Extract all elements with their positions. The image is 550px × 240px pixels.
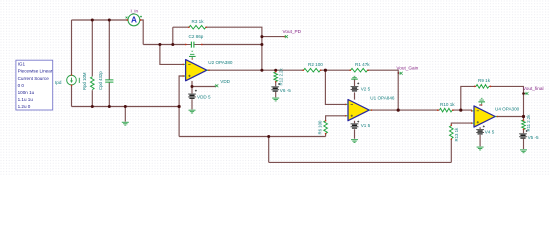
resistor R11 2.2k — [522, 119, 526, 130]
svg-text:Vout_final: Vout_final — [523, 86, 544, 91]
wire R3 right to feedback vertical — [206, 27, 262, 70]
wire V6 to ground — [275, 92, 277, 98]
svg-text:R2 100: R2 100 — [308, 62, 323, 67]
wire Ipd top — [71, 20, 73, 75]
svg-text:IG1: IG1 — [18, 62, 26, 67]
wire R13 bottom — [450, 139, 452, 162]
battery V5 -5 — [519, 130, 528, 139]
wire ammeter to corner — [140, 20, 143, 45]
svg-text:U2 OPA380: U2 OPA380 — [208, 60, 233, 65]
wire Rpd bottom — [91, 90, 93, 106]
resistor R13 1k — [450, 124, 454, 140]
wire C2 right lead — [202, 44, 262, 46]
wire bottom rail photodiode — [72, 106, 180, 108]
resistor R6 100 — [324, 120, 328, 134]
svg-text:R1 47k: R1 47k — [355, 62, 370, 67]
svg-text:R6 100: R6 100 — [317, 120, 322, 134]
wire VDD battery top — [191, 88, 193, 93]
resistor R2 — [302, 68, 321, 72]
wire U4 V+ pin — [479, 104, 481, 106]
ground below V6 — [272, 98, 279, 102]
wire VDD battery to ground — [191, 99, 193, 109]
wire U1 V- pin chain — [354, 121, 356, 139]
wire U4 V- pin chain — [479, 127, 481, 146]
junction dots stage2 — [267, 69, 400, 138]
resistor R9 — [474, 85, 491, 89]
wire Cpd bottom — [108, 82, 110, 106]
wire U4 output — [495, 116, 524, 118]
wire R6 bottom — [325, 134, 327, 137]
svg-text:R13 1k: R13 1k — [454, 127, 459, 141]
resistor R3 — [188, 25, 207, 29]
wire Ipd bottom — [71, 85, 73, 106]
battery V4 5 — [476, 125, 485, 134]
ground below V5 — [520, 149, 527, 153]
wire U2 supply pin down — [191, 81, 193, 87]
resistor Rpd — [91, 77, 95, 90]
battery V2 5 — [351, 82, 360, 91]
net terminal Vout_Gain — [398, 72, 400, 74]
resistor R12 2.2k — [274, 71, 278, 83]
svg-text:V1 5: V1 5 — [361, 123, 371, 128]
svg-text:0 0: 0 0 — [18, 83, 25, 88]
wire Vout_final stub — [524, 93, 526, 95]
wire U1 V+ pin chain — [354, 79, 356, 99]
svg-text:Rpd 10M: Rpd 10M — [82, 72, 87, 90]
wire R9 right to output corner — [490, 86, 523, 116]
wire Rpd top — [91, 20, 93, 76]
wire R13 top to U4 plus input — [451, 123, 472, 125]
svg-text:Piecewise Linear: Piecewise Linear — [18, 69, 53, 74]
svg-text:V2 5: V2 5 — [361, 87, 371, 92]
net terminal VDD — [215, 84, 219, 87]
ground below V1 — [351, 139, 358, 143]
wire inv vertical stage3 — [461, 86, 475, 110]
ground below V4 — [477, 147, 484, 151]
svg-text:VDD: VDD — [220, 79, 230, 84]
inverted ground above U4 — [478, 98, 485, 106]
svg-text:I_in: I_in — [131, 9, 139, 14]
wire R10 right to U4 — [453, 109, 472, 111]
op-amp U1 OPA846 — [345, 100, 371, 121]
net terminal Vout_final — [522, 92, 525, 95]
wire bottom ground rail — [269, 161, 452, 163]
wire R12 stub — [275, 70, 277, 71]
ground photodiode — [122, 122, 129, 126]
wire V5 to ground — [523, 139, 525, 149]
svg-text:U1 OPA846: U1 OPA846 — [370, 95, 395, 100]
wire R3 left lead — [173, 26, 189, 28]
current source IG1 (Ipd) — [67, 74, 80, 86]
wire U1 output interconnect — [369, 109, 437, 111]
svg-text:Cpd 432p: Cpd 432p — [98, 71, 103, 90]
svg-text:A: A — [131, 16, 137, 25]
wire inverting input line — [143, 44, 185, 46]
op-amp U2 OPA380 — [182, 60, 208, 81]
wire R1 right to Vout_Gain corner — [368, 70, 398, 110]
wire up to R3 — [172, 27, 174, 44]
inverted ground above V2 — [351, 76, 358, 80]
svg-text:Current Source: Current Source — [18, 76, 50, 81]
svg-text:1.2u 0: 1.2u 0 — [18, 104, 31, 109]
wire R11 chain — [523, 117, 525, 120]
wire mid ground rail — [179, 136, 326, 138]
ammeter A (I_in) — [126, 14, 142, 26]
wire ground stub photodiode — [124, 107, 126, 122]
resistor R1 — [349, 68, 369, 72]
wire U2 plus input — [179, 76, 186, 137]
svg-text:1.1u 1u: 1.1u 1u — [18, 97, 34, 102]
svg-text:Ipd: Ipd — [55, 80, 62, 85]
resistor R10 — [437, 108, 454, 112]
svg-text:R3 1k: R3 1k — [192, 19, 205, 24]
wire Cpd top — [108, 20, 110, 80]
battery V6 -5 — [271, 83, 280, 92]
svg-text:V5 -5: V5 -5 — [528, 135, 539, 140]
svg-text:V6 -5: V6 -5 — [280, 88, 291, 93]
capacitor Cpd — [105, 80, 113, 82]
svg-text:V4 5: V4 5 — [485, 129, 495, 134]
svg-text:R9 1k: R9 1k — [478, 78, 491, 83]
op-amp U4 OPA300 — [471, 106, 497, 127]
wire R12 to battery V6 — [275, 82, 277, 86]
svg-text:Vout_Gain: Vout_Gain — [396, 65, 418, 70]
wire R2 to nodeB to R1 — [321, 69, 350, 71]
capacitor C2 — [185, 42, 203, 48]
junction dots stage1 — [91, 19, 277, 109]
svg-text:C2 86p: C2 86p — [189, 34, 204, 39]
net terminal Vout_PD — [284, 35, 288, 38]
ground above U2 — [189, 51, 196, 60]
svg-text:Vout_PD: Vout_PD — [283, 29, 302, 34]
wire drop to U2 inverting input — [160, 45, 183, 65]
pin dots outputs — [208, 69, 498, 117]
wire top rail photodiode — [72, 19, 128, 21]
svg-text:R12 2.2k: R12 2.2k — [279, 67, 284, 85]
svg-text:100n 1u: 100n 1u — [18, 90, 35, 95]
wire nodeB drop to U1 inverting input — [325, 70, 345, 104]
wire U1 plus input to R6 — [326, 116, 346, 121]
wire Vout_PD stub — [262, 36, 284, 38]
battery VDD 5 — [188, 90, 197, 99]
svg-text:VDD 5: VDD 5 — [197, 94, 211, 99]
svg-text:R10 1k: R10 1k — [440, 102, 455, 107]
battery V1 5 — [351, 121, 360, 129]
junction dots stage3 — [459, 109, 525, 119]
wire U2 output line — [207, 69, 303, 71]
ground below VDD battery — [189, 110, 196, 114]
wire drop to bottom rail — [268, 137, 270, 163]
note box IG1 Piecewise Linear Current Source — [16, 60, 53, 110]
wire VDD stub — [192, 86, 216, 88]
wire R11 to battery V5 — [523, 129, 525, 133]
svg-text:U4 OPA300: U4 OPA300 — [495, 107, 520, 112]
svg-text:R11 2.2k: R11 2.2k — [526, 114, 531, 132]
